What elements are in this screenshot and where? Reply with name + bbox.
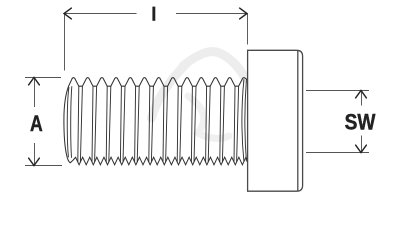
svg-text:A: A — [30, 112, 43, 136]
svg-text:SW: SW — [345, 110, 376, 135]
